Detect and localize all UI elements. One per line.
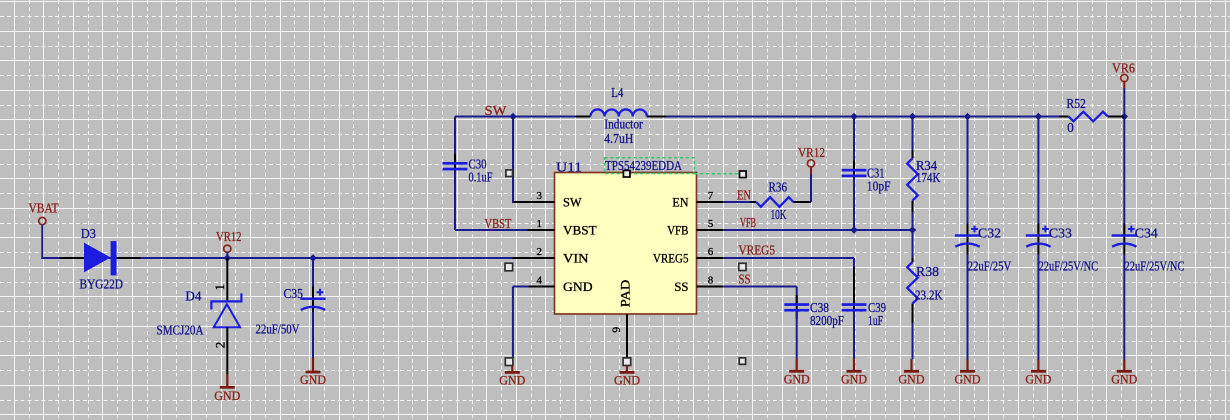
wire rail to C31 [853,117,855,170]
pin 5 VFB stub [697,229,724,231]
svg-text:SMCJ20A: SMCJ20A [157,322,204,337]
wire VFB to R38 [912,230,914,258]
svg-text:GND: GND [1111,372,1137,386]
no-ERC marker at pin 9 ground [623,358,631,366]
wire C39 to ground [853,311,855,358]
svg-text:D4: D4 [185,288,201,303]
power port VR12 left [216,229,242,252]
svg-text:VREG5: VREG5 [739,242,776,257]
svg-text:174K: 174K [916,170,941,185]
svg-text:8: 8 [708,274,714,286]
wire R34 to VFB [912,212,914,230]
ground for D4 [214,374,240,403]
resistor R34 [907,158,918,200]
svg-text:R52: R52 [1066,96,1086,111]
svg-text:0: 0 [1067,120,1074,135]
wire rail to C34 [1123,117,1125,235]
svg-text:D3: D3 [81,226,96,241]
svg-text:7: 7 [708,190,714,202]
capacitor C34 [1112,224,1137,255]
wire SW pin branch [512,117,529,203]
wire R36 to VR12 [810,167,812,202]
svg-text:9: 9 [611,327,623,333]
ground for PAD pin 9 [614,366,640,388]
svg-text:SS: SS [674,279,688,294]
ground for C39 [841,359,867,387]
wire VFB [723,229,912,231]
junction VFB R34 R38 [909,226,916,233]
svg-text:GND: GND [563,279,593,294]
pin 1 VBST stub [528,229,555,231]
wire rail to C32 [967,117,969,235]
power port VBAT [29,201,59,225]
svg-text:VBAT: VBAT [29,201,59,216]
junction VR12/D4 [224,254,231,261]
svg-text:U11: U11 [556,159,582,174]
inductor L4 [591,109,647,116]
svg-text:C33: C33 [1049,226,1072,241]
wire VR12 stub [226,252,228,258]
wire EN [723,201,750,203]
wire VR6 down [1123,81,1125,116]
op-amp U11 body [555,173,697,315]
power port VR6 [1112,60,1135,81]
svg-text:22uF/50V: 22uF/50V [256,322,300,337]
wire SW left vertical to C30 [454,117,456,163]
svg-text:4: 4 [537,274,543,286]
svg-text:3: 3 [537,190,543,202]
wire VREG5 [723,258,854,267]
junction rail C31 [850,113,857,120]
wire SW horizontal [455,116,576,118]
resistor R52 pins [1059,116,1124,118]
wire C30 to VBST [454,170,456,230]
svg-text:PAD: PAD [619,280,633,308]
svg-text:10K: 10K [771,207,787,222]
svg-text:C35: C35 [284,286,304,301]
pin 7 EN stub [697,201,724,203]
capacitor C32 [955,224,980,255]
svg-text:0.1uF: 0.1uF [469,169,493,184]
resistor R36 [756,197,793,207]
svg-text:1: 1 [212,284,227,291]
svg-text:GND: GND [1025,372,1051,386]
svg-text:GND: GND [955,372,981,386]
wire C32 to ground [967,254,969,359]
svg-text:22uF/25V/NC: 22uF/25V/NC [1039,259,1099,274]
svg-text:22uF/25V: 22uF/25V [968,259,1012,274]
svg-text:GND: GND [300,373,326,387]
svg-text:R36: R36 [769,180,788,195]
svg-text:GND: GND [841,372,867,386]
no-ERC marker lower right [739,358,745,364]
wire C35 to ground [312,312,314,359]
diode D4 zener [211,293,241,327]
junction rail C32 [964,113,971,120]
svg-text:22uF/25V/NC: 22uF/25V/NC [1125,259,1185,274]
wire GND pin 4 [513,287,529,359]
ground for C32 [955,360,981,387]
svg-text:BYG22D: BYG22D [80,277,124,292]
selection box around TPS54239EDDA [605,158,739,174]
svg-text:1uF: 1uF [868,313,883,328]
capacitor C33 [1026,224,1051,255]
pin 8 SS stub [697,286,724,288]
svg-text:SW: SW [563,194,582,209]
wire R38 to ground [912,323,914,359]
diode D4 pin 2 [226,327,228,374]
wire rail to C33 [1037,117,1039,235]
junction SW pin branch [509,113,516,120]
svg-text:VR12: VR12 [216,229,242,244]
pin 4 GND stub [515,286,555,288]
ground for C38 [784,359,810,387]
capacitor C39 [842,295,867,319]
resistor R38 [907,262,918,304]
wire C33 to ground [1037,254,1039,359]
ground for C33 [1025,360,1051,387]
junction rail C34 [1121,113,1128,120]
junction C35 [309,254,316,261]
svg-text:VBST: VBST [563,222,597,237]
svg-text:23.2K: 23.2K [915,288,943,303]
capacitor C31 [842,161,867,185]
svg-text:GND: GND [499,374,525,388]
svg-text:2: 2 [213,342,228,349]
wire VIN horizontal main [41,257,527,259]
svg-text:R38: R38 [916,264,939,279]
power port VR12 right [798,145,825,167]
svg-text:SS: SS [739,271,751,286]
svg-text:5: 5 [708,218,714,230]
wire C31 to VFB [853,177,855,230]
svg-text:4.7uH: 4.7uH [604,131,633,146]
pin 3 SW stub [514,201,555,203]
svg-text:VBST: VBST [485,216,512,231]
svg-text:VFB: VFB [667,222,689,237]
diode D3 [84,241,117,275]
capacitor C39 top pin [853,267,855,304]
svg-text:EN: EN [737,187,751,202]
svg-text:8200pF: 8200pF [810,313,844,328]
svg-text:GND: GND [614,374,640,388]
resistor R52 [1069,112,1108,122]
capacitor C38 [784,295,809,319]
svg-text:6: 6 [708,246,714,258]
no-ERC marker above SS label [739,263,746,270]
capacitor C30 [443,154,468,178]
wire VBAT vertical [41,224,43,258]
wire C35 branch [312,258,314,298]
resistor R36 pins [750,201,811,203]
svg-text:VR12: VR12 [798,145,825,160]
svg-text:TPS54239EDDA: TPS54239EDDA [605,158,682,173]
capacitor C35 [300,287,325,318]
svg-text:GND: GND [784,372,810,386]
svg-text:L4: L4 [611,85,623,100]
pin 2 VIN stub [513,257,555,259]
svg-text:GND: GND [899,372,925,386]
transistor D4 pin 1 [226,258,228,302]
wire SS [723,287,796,304]
junction rail R34 [909,113,916,120]
svg-text:VFB: VFB [740,215,756,230]
no-ERC marker below VIN [505,263,513,271]
wire C38 to ground [796,311,798,358]
inductor L4 pins [576,116,666,118]
svg-text:VIN: VIN [563,250,589,265]
svg-text:VREG5: VREG5 [653,250,689,265]
svg-text:C32: C32 [978,226,1001,241]
ground for C35 [300,358,326,387]
svg-text:C34: C34 [1135,226,1158,241]
ground for R38 [899,359,925,386]
svg-text:10pF: 10pF [867,178,891,193]
svg-text:2: 2 [537,246,543,258]
svg-text:1: 1 [537,218,543,230]
wire rail to R34 [912,117,914,151]
no-ERC marker at pin 4 ground [505,358,513,366]
svg-text:Inductor: Inductor [604,117,643,132]
no-ERC marker left of pin 3 [506,170,513,177]
wire C34 to ground [1123,254,1125,359]
resistor R34 pins [912,150,914,212]
diode D3 pins [60,257,141,259]
wire SW output rail [666,116,1059,118]
selection handle right [740,171,747,178]
junction rail C33 [1035,113,1042,120]
wire VBST horizontal [455,229,529,231]
ground for C34 [1111,360,1137,387]
pin 6 VREG5 stub [697,257,724,259]
resistor R38 pins [912,258,914,323]
svg-text:GND: GND [214,389,240,403]
ground for pin 4 [499,366,525,388]
svg-text:EN: EN [672,194,689,209]
pin 9 PAD stub [626,314,628,358]
selection handle left [623,170,630,177]
junction VFB C31 [850,226,857,233]
svg-text:VR6: VR6 [1112,60,1135,75]
